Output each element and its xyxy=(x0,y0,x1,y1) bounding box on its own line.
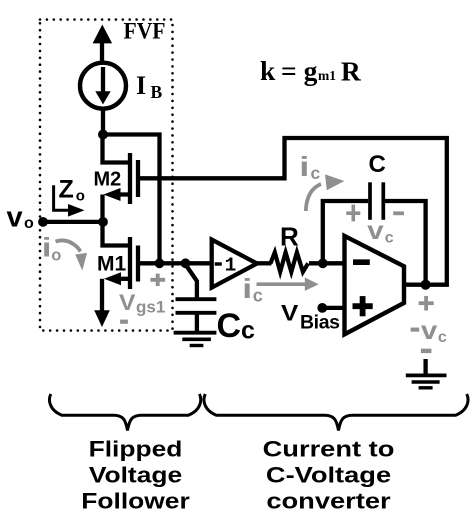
svg-text:o: o xyxy=(51,247,61,265)
labels + - vc across C xyxy=(346,205,404,247)
svg-text:v: v xyxy=(421,316,438,344)
svg-text:i: i xyxy=(42,232,52,262)
capacitor Cc xyxy=(176,265,217,332)
wire: node A right and down to M1 gate xyxy=(103,135,160,264)
wire: current source to node A xyxy=(101,108,105,136)
labels + -vc - at output xyxy=(411,296,447,351)
io label and curved arrow xyxy=(42,232,87,270)
wire: -1 output to R xyxy=(256,261,272,265)
node: junction with branch from node A xyxy=(155,258,165,268)
transistor M2 xyxy=(103,135,139,223)
equation k = gm1 R xyxy=(260,55,362,87)
svg-text:c: c xyxy=(311,163,321,183)
down arrow below M1 (output current) xyxy=(94,279,110,327)
svg-text:g: g xyxy=(304,55,318,86)
label: Current to C-Voltage converter xyxy=(263,438,395,514)
svg-text:m1: m1 xyxy=(318,68,336,83)
svg-text:v: v xyxy=(367,216,384,244)
resistor R xyxy=(271,252,309,272)
brace: flipped voltage follower section xyxy=(49,394,200,431)
label: Flipped Voltage Follower xyxy=(81,437,190,513)
svg-text:Voltage: Voltage xyxy=(89,463,182,487)
svg-text:FVF: FVF xyxy=(124,19,166,44)
svg-text:o: o xyxy=(76,188,85,205)
svg-text:c: c xyxy=(385,229,394,246)
svg-text:R: R xyxy=(280,222,299,252)
current source IB xyxy=(80,63,126,109)
wire: node B up to capacitor C xyxy=(323,201,368,263)
node: junction to Cc xyxy=(181,258,191,268)
FVF dotted box xyxy=(40,20,173,331)
up arrow (top rail of FVF) xyxy=(93,25,113,63)
inverting amplifier -1 xyxy=(212,240,257,288)
node A (IB / M2 drain / branch) xyxy=(98,130,108,140)
svg-text:c: c xyxy=(253,286,263,306)
svg-text:=: = xyxy=(281,55,297,86)
node vo and wire xyxy=(38,217,108,227)
svg-text:M1: M1 xyxy=(97,252,126,275)
svg-text:v: v xyxy=(7,202,23,234)
svg-text:gs1: gs1 xyxy=(136,298,165,317)
svg-text:converter: converter xyxy=(266,490,391,514)
svg-text:Follower: Follower xyxy=(81,489,190,513)
label vo xyxy=(7,202,35,234)
label Vgs1 with + and - xyxy=(119,274,165,322)
svg-text:Flipped: Flipped xyxy=(89,437,183,461)
svg-text:i: i xyxy=(299,151,309,182)
wire: M2 gate feedback loop to op-amp output xyxy=(138,138,447,285)
svg-text:C: C xyxy=(217,307,242,345)
ground below Cc xyxy=(174,333,217,346)
wire: R to op-amp inverting input xyxy=(309,261,345,265)
svg-text:o: o xyxy=(24,215,34,232)
op-amp U1 xyxy=(345,236,405,334)
brace: current to C-voltage converter section xyxy=(204,394,468,431)
wire: M1 gate row to -1 amp xyxy=(138,261,212,265)
label Cc xyxy=(217,307,256,345)
wire: C right plate to output node xyxy=(385,201,426,285)
transistor M1 xyxy=(103,222,139,289)
ic arrow (below R) xyxy=(242,273,318,306)
svg-text:Z: Z xyxy=(59,175,74,203)
svg-text:Bias: Bias xyxy=(300,311,340,333)
Zo impedance indicator xyxy=(54,175,85,216)
svg-text:i: i xyxy=(242,273,252,304)
op-amp output wire and node xyxy=(404,280,431,290)
node B (inverting input / C branch) xyxy=(318,258,328,268)
svg-text:I: I xyxy=(136,71,146,100)
svg-text:c: c xyxy=(241,316,255,344)
svg-text:c: c xyxy=(438,329,447,346)
svg-text:R: R xyxy=(341,56,362,87)
svg-text:B: B xyxy=(151,82,163,102)
svg-text:k: k xyxy=(260,55,276,86)
svg-text:V: V xyxy=(119,290,136,314)
svg-text:M2: M2 xyxy=(94,169,122,191)
svg-text:C-Voltage: C-Voltage xyxy=(266,464,391,488)
svg-text:Current to: Current to xyxy=(263,438,395,462)
VBias input xyxy=(281,301,345,333)
ic curved arrow (top, into C loop) xyxy=(299,151,344,211)
ground (output reference) xyxy=(406,359,447,388)
capacitor C xyxy=(370,182,383,220)
svg-text:1: 1 xyxy=(225,254,237,276)
label IB xyxy=(136,71,163,102)
svg-text:C: C xyxy=(369,151,386,178)
svg-text:V: V xyxy=(281,301,298,326)
